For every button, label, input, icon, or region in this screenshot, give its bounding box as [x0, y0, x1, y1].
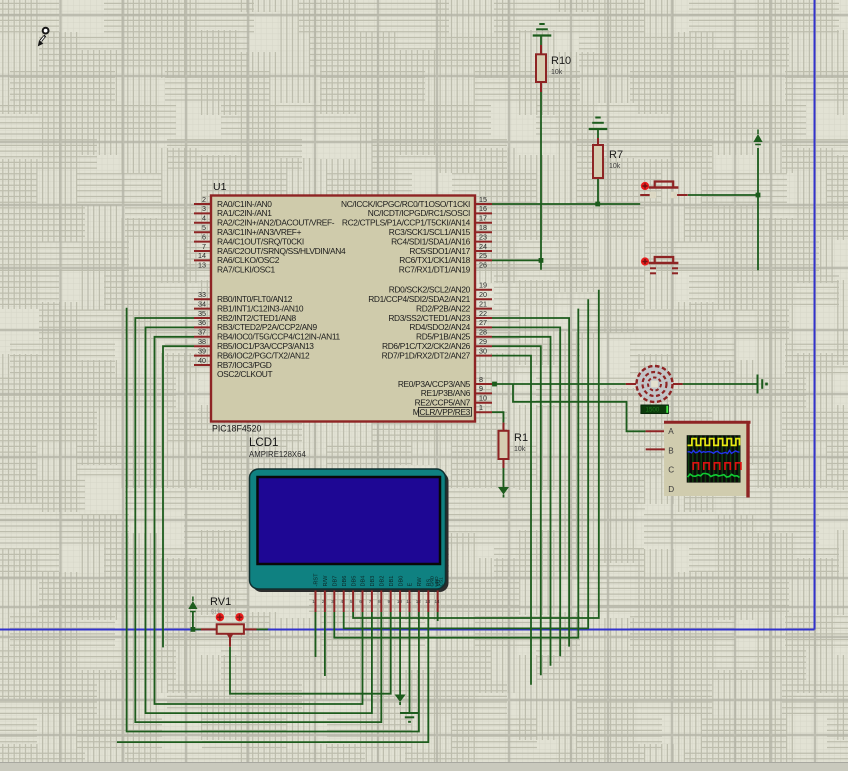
svg-text:R1: R1: [514, 432, 528, 444]
svg-text:14: 14: [435, 599, 441, 604]
svg-text:10k: 10k: [514, 446, 526, 453]
svg-text:13: 13: [425, 599, 431, 604]
svg-text:DB4: DB4: [361, 576, 367, 587]
svg-text:2: 2: [202, 195, 206, 204]
svg-text:15: 15: [479, 195, 487, 204]
svg-text:B: B: [668, 446, 674, 455]
svg-text:7: 7: [369, 599, 372, 604]
svg-text:CS1: CS1: [438, 577, 444, 587]
svg-text:23: 23: [479, 232, 487, 241]
svg-text:21: 21: [479, 299, 487, 308]
svg-text:U1: U1: [213, 181, 227, 193]
svg-text:6: 6: [359, 599, 362, 604]
svg-text:OSC2/CLKOUT: OSC2/CLKOUT: [217, 369, 272, 379]
svg-text:9: 9: [479, 384, 483, 393]
svg-text:26: 26: [479, 261, 487, 270]
svg-text:8: 8: [479, 375, 483, 384]
svg-text:22: 22: [479, 309, 487, 318]
svg-text:RV1: RV1: [210, 596, 231, 608]
svg-text:14: 14: [198, 251, 206, 260]
svg-text:DB0: DB0: [398, 576, 404, 587]
svg-text:11: 11: [406, 599, 411, 604]
svg-text:1: 1: [312, 599, 315, 604]
svg-text:3: 3: [202, 204, 206, 213]
svg-text:-RST: -RST: [314, 573, 320, 587]
svg-text:DB5: DB5: [351, 576, 357, 587]
svg-text:DB2: DB2: [380, 576, 386, 587]
svg-text:AMPIRE128X64: AMPIRE128X64: [249, 450, 306, 459]
svg-text:29: 29: [479, 337, 487, 346]
svg-text:LCD1: LCD1: [249, 437, 278, 449]
svg-text:10k: 10k: [609, 163, 621, 170]
svg-text:5: 5: [350, 599, 353, 604]
svg-text:16: 16: [479, 204, 487, 213]
svg-text:35: 35: [198, 309, 206, 318]
svg-text:C: C: [668, 466, 674, 475]
svg-text:36: 36: [198, 318, 206, 327]
svg-text:33: 33: [198, 290, 206, 299]
svg-text:MCLR/VPP/RE3: MCLR/VPP/RE3: [413, 407, 471, 417]
svg-text:25: 25: [479, 251, 487, 260]
svg-text:R/W: R/W: [323, 575, 329, 587]
svg-text:R10: R10: [551, 55, 571, 67]
svg-text:34: 34: [198, 299, 206, 308]
svg-text:RW: RW: [417, 577, 423, 587]
svg-text:18: 18: [479, 223, 487, 232]
svg-text:E: E: [408, 583, 414, 587]
svg-text:4: 4: [341, 599, 344, 604]
svg-text:10: 10: [397, 599, 403, 604]
svg-text:3: 3: [331, 599, 334, 604]
svg-text:DB1: DB1: [389, 576, 395, 587]
svg-text:13: 13: [198, 261, 206, 270]
svg-text:39: 39: [198, 346, 206, 355]
svg-text:R7: R7: [609, 149, 623, 161]
svg-text:1: 1: [479, 403, 483, 412]
svg-text:DB3: DB3: [370, 576, 376, 587]
svg-text:40: 40: [198, 356, 206, 365]
svg-text:28: 28: [479, 328, 487, 337]
svg-text:10k: 10k: [551, 69, 563, 76]
svg-text:24: 24: [479, 242, 487, 251]
svg-text:9: 9: [388, 599, 391, 604]
svg-text:10: 10: [479, 394, 487, 403]
svg-text:30: 30: [479, 346, 487, 355]
svg-text:RC7/RX1/DT1/AN19: RC7/RX1/DT1/AN19: [399, 265, 471, 275]
svg-text:2: 2: [322, 599, 325, 604]
svg-text:19: 19: [479, 281, 487, 290]
svg-text:12: 12: [416, 599, 422, 604]
svg-text:6: 6: [202, 232, 206, 241]
svg-text:4: 4: [202, 214, 206, 223]
svg-text:17: 17: [479, 214, 487, 223]
svg-text:RA7/CLKI/OSC1: RA7/CLKI/OSC1: [217, 265, 276, 275]
svg-text:1500: 1500: [646, 407, 660, 414]
svg-text:RD7/P1D/RX2/DT2/AN27: RD7/P1D/RX2/DT2/AN27: [382, 350, 471, 360]
svg-text:DB6: DB6: [342, 576, 348, 587]
svg-text:A: A: [668, 427, 674, 436]
svg-text:7: 7: [202, 242, 206, 251]
svg-text:5: 5: [202, 223, 206, 232]
svg-text:8: 8: [378, 599, 381, 604]
svg-text:D: D: [668, 485, 674, 494]
svg-text:27: 27: [479, 318, 487, 327]
svg-text:37: 37: [198, 328, 206, 337]
svg-text:PIC18F4520: PIC18F4520: [212, 424, 261, 434]
svg-text:38: 38: [198, 337, 206, 346]
svg-text:DB7: DB7: [333, 576, 339, 587]
svg-text:20: 20: [479, 290, 487, 299]
